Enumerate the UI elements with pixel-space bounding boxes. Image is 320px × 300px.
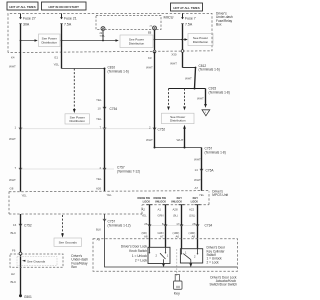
- svg-text:30A: 30A: [23, 23, 30, 27]
- svg-text:F6: F6: [12, 249, 16, 253]
- svg-text:BLK: BLK: [11, 280, 17, 284]
- box See Power Distribution (mid left): [65, 114, 90, 124]
- box Driver's Door Key Cylinder Switch: [180, 249, 202, 263]
- wire MPCS output A2: [147, 205, 153, 248]
- wire fuse21 to C810 (YEL): [54, 52, 106, 69]
- svg-text:UNLOCK: UNLOCK: [155, 200, 166, 204]
- svg-text:G8: G8: [10, 187, 14, 191]
- svg-text:(Terminals 1-12): (Terminals 1-12): [108, 223, 131, 227]
- svg-text:A7: A7: [195, 186, 199, 190]
- svg-text:LOCK: LOCK: [143, 200, 150, 204]
- wire MPCS ground pin to C752 pin 16 (BLK): [20, 214, 22, 296]
- svg-text:A1: A1: [158, 207, 162, 211]
- svg-text:C752: C752: [158, 128, 166, 132]
- wire C810 down (YEL): [104, 69, 106, 192]
- node continuation triangle: [202, 110, 210, 116]
- box Driver's Under-dash Fuse/Relay Box (top dashed): [8, 13, 212, 52]
- connector C757 (bottom): [103, 219, 106, 221]
- svg-text:A26: A26: [96, 187, 102, 191]
- fuse Fuse 27 30A: [19, 14, 36, 41]
- svg-text:K4: K4: [11, 56, 15, 60]
- connector C752 pin 1: [19, 128, 22, 130]
- svg-text:A28: A28: [173, 207, 179, 211]
- svg-text:WHT: WHT: [197, 97, 204, 101]
- wire fuse27 branch to See Power Distribution: [20, 39, 38, 42]
- leader C757: [21, 168, 114, 170]
- svg-text:YEL: YEL: [54, 63, 60, 67]
- svg-text:BLK: BLK: [11, 231, 17, 235]
- svg-text:YEL: YEL: [96, 177, 102, 181]
- svg-text:A22: A22: [189, 207, 195, 211]
- svg-text:WHT: WHT: [146, 66, 153, 70]
- svg-text:(Terminals 1-6): (Terminals 1-6): [199, 67, 220, 71]
- wire fuse7 to C815 (WHT): [183, 67, 197, 69]
- wire MPCS output A1: [163, 205, 169, 248]
- wire relay branch to See Power Distribution: [154, 38, 188, 41]
- fuse Fuse 21 7.5A: [60, 14, 77, 53]
- svg-text:WHT: WHT: [194, 158, 201, 162]
- svg-text:C734: C734: [205, 223, 213, 227]
- svg-text:MPCS Unit: MPCS Unit: [212, 193, 228, 197]
- svg-text:HOT AT ALL TIMES: HOT AT ALL TIMES: [9, 5, 35, 9]
- svg-text:C75A: C75A: [206, 168, 215, 172]
- svg-text:Distribution: Distribution: [129, 42, 145, 46]
- svg-text:10: 10: [98, 107, 102, 111]
- svg-text:GRN: GRN: [158, 213, 164, 217]
- box See Power Distribution (top right): [188, 34, 213, 46]
- wire MPCS output A28: [179, 205, 185, 249]
- leader C752: [21, 128, 152, 130]
- svg-text:X30: X30: [171, 53, 177, 57]
- ground G501: [19, 294, 22, 297]
- connector circle into under-dash box: [19, 252, 22, 255]
- wire relay output down (WHT): [154, 52, 156, 148]
- svg-text:WHT: WHT: [170, 62, 177, 66]
- svg-text:Distribution: Distribution: [193, 40, 209, 44]
- connector C752 pin 16: [19, 224, 22, 226]
- svg-text:BLK: BLK: [96, 228, 101, 232]
- connector circle at box exit: [153, 50, 156, 53]
- svg-text:UNLOCK: UNLOCK: [171, 200, 182, 204]
- svg-text:WHT: WHT: [9, 178, 16, 182]
- fuse Fuse 7 7.5A: [181, 14, 196, 68]
- svg-text:7.5A: 7.5A: [64, 23, 72, 27]
- svg-text:WHT: WHT: [185, 77, 192, 81]
- svg-text:YEL: YEL: [199, 193, 205, 197]
- svg-text:17: 17: [176, 222, 180, 226]
- svg-text:7.5A: 7.5A: [100, 35, 105, 38]
- svg-text:YEL: YEL: [142, 213, 148, 217]
- svg-text:A8: A8: [144, 235, 148, 239]
- svg-text:Knob Switch: Knob Switch: [129, 249, 147, 253]
- svg-text:HOT AT ALL TIMES: HOT AT ALL TIMES: [173, 6, 199, 10]
- svg-text:A2: A2: [142, 207, 146, 211]
- svg-text:14: 14: [195, 168, 199, 172]
- svg-text:(Terminals 7-12): (Terminals 7-12): [117, 169, 140, 173]
- wire fuse21/fuse22 branch to See Power Distribution: [61, 39, 119, 42]
- wire MPCS output A22: [195, 205, 201, 249]
- svg-text:Distribution: Distribution: [170, 119, 186, 123]
- svg-text:A9: A9: [97, 237, 101, 241]
- svg-text:H2: H2: [11, 272, 15, 276]
- svg-text:(Terminals 1-8): (Terminals 1-8): [209, 91, 230, 95]
- svg-text:(9L): (9L): [173, 213, 178, 217]
- box See Grounds (mid): [54, 238, 82, 246]
- svg-text:E1: E1: [55, 56, 59, 60]
- box See Power Distribution (top middle): [120, 35, 153, 48]
- wire knob switch common: [162, 264, 165, 268]
- dashed arrow MPCS to See Grounds: [61, 215, 64, 238]
- svg-text:LOCK: LOCK: [191, 200, 198, 204]
- svg-text:A7: A7: [160, 235, 164, 239]
- svg-text:Distribution: Distribution: [41, 41, 57, 45]
- svg-text:A6: A6: [176, 235, 180, 239]
- node See Grounds (in box): [17, 257, 57, 266]
- svg-text:Fuse 27: Fuse 27: [23, 17, 36, 21]
- svg-text:K3: K3: [148, 56, 152, 60]
- connector C757 pin 7 (left): [19, 168, 22, 170]
- box door area (dashed): [93, 239, 238, 271]
- node HOT AT ALL TIMES (right): [171, 3, 203, 11]
- node HOT AT ALL TIMES (left): [7, 2, 38, 10]
- box See Power Distribution (top left): [39, 34, 61, 47]
- leader C734: [150, 225, 198, 227]
- box MICU (dashed): [96, 16, 161, 30]
- connector C757 pin 2 (mid): [103, 168, 106, 170]
- svg-text:WHT: WHT: [9, 137, 16, 141]
- svg-text:Fuse 7: Fuse 7: [185, 17, 196, 21]
- svg-text:WHT: WHT: [146, 138, 153, 142]
- svg-text:Box: Box: [216, 23, 222, 27]
- key mechanical link (dashed): [176, 249, 178, 276]
- box Driver's Door Lock Knob Switch: [148, 247, 170, 263]
- svg-text:MICU: MICU: [164, 15, 174, 20]
- wire fuse27 down (WHT): [20, 41, 22, 192]
- svg-text:(Terminals 1-6): (Terminals 1-6): [108, 70, 129, 74]
- svg-text:Fuse 21: Fuse 21: [64, 17, 77, 21]
- box Driver's Under-dash Fuse/Relay Box (bottom dashed): [10, 254, 63, 267]
- svg-text:Switch/Door Switch: Switch/Door Switch: [210, 282, 238, 286]
- wire MPCS A9 ground bus (BLK): [105, 214, 238, 267]
- svg-text:WHT: WHT: [177, 138, 184, 142]
- svg-text:C754: C754: [110, 107, 118, 111]
- key icon: [174, 275, 183, 296]
- svg-text:2 = Lock: 2 = Lock: [135, 258, 148, 262]
- connector C734 pins: [148, 224, 151, 226]
- svg-text:WHT: WHT: [194, 178, 201, 182]
- svg-text:YEL: YEL: [22, 194, 28, 198]
- box See Power Distribution (mid right): [162, 113, 195, 124]
- svg-text:EB: EB: [148, 32, 152, 35]
- svg-text:YEL: YEL: [96, 98, 102, 102]
- wire key cylinder common: [189, 263, 192, 267]
- box Driver's MPCS Unit (dashed, stepped bottom): [9, 191, 209, 214]
- wire C757 down right (WHT): [201, 148, 203, 191]
- svg-text:G501: G501: [24, 295, 32, 299]
- wire to continuation triangle (WHT): [197, 89, 207, 108]
- node HOT IN ON OR START: [42, 2, 87, 10]
- wire dashed branch to See Power Distribution (mid left): [73, 69, 76, 114]
- svg-text:Key: Key: [174, 291, 180, 295]
- connector C752 pin 2: [153, 128, 156, 130]
- wire C815 down to junction: [169, 68, 206, 90]
- connector C75A pin 14: [200, 169, 203, 171]
- svg-text:YEL: YEL: [107, 193, 113, 197]
- wire junction to C757 corner: [154, 147, 202, 149]
- svg-text:C752: C752: [24, 223, 32, 227]
- wire dashed arrow to See Power Distribution (left drop): [167, 89, 170, 111]
- wire from See Power Distribution down (up arrow): [177, 125, 186, 148]
- svg-text:28: 28: [192, 222, 196, 226]
- wire dashed arrow to See Power Distribution (right drop): [183, 89, 186, 111]
- relay contact (in MICU): [148, 26, 157, 52]
- connector C752 pin 7 (mid): [103, 128, 106, 130]
- svg-text:HOT IN ON OR START: HOT IN ON OR START: [49, 5, 80, 9]
- svg-text:(19L): (19L): [189, 213, 195, 217]
- svg-text:A8: A8: [192, 235, 196, 239]
- svg-text:(Terminals 1-8): (Terminals 1-8): [205, 151, 226, 155]
- svg-text:2 = Lock: 2 = Lock: [207, 260, 220, 264]
- svg-text:YEL: YEL: [96, 117, 102, 121]
- svg-text:26: 26: [144, 222, 148, 226]
- connector C754 pin 10: [103, 107, 106, 109]
- svg-text:See Grounds: See Grounds: [59, 241, 78, 245]
- svg-text:7.5A: 7.5A: [185, 23, 193, 27]
- fuse Fuse 22 (in MICU): [100, 27, 106, 41]
- svg-text:Distribution: Distribution: [69, 119, 85, 123]
- svg-text:Box: Box: [71, 265, 77, 269]
- svg-text:Driver's Door Lock: Driver's Door Lock: [121, 245, 148, 249]
- svg-text:See Grounds: See Grounds: [27, 259, 46, 263]
- svg-text:WHT: WHT: [9, 65, 16, 69]
- svg-text:16: 16: [13, 223, 17, 227]
